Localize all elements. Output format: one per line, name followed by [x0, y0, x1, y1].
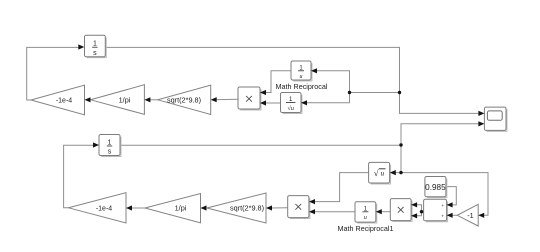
node B junction dot	[348, 91, 351, 94]
wire gain sqrt bottom to 1/pi bottom	[206, 207, 207, 209]
wire node B to Math Reciprocal 1/u input	[312, 71, 350, 93]
arrowhead into product P1 in2	[260, 100, 266, 105]
svg-text:s: s	[93, 50, 97, 57]
svg-text:+: +	[441, 203, 444, 208]
arrowhead into product P2 in2	[309, 209, 315, 214]
wire 1/u bottom output to product P2 in2	[314, 211, 355, 213]
integrator U1 (1/s top)	[85, 35, 107, 57]
svg-text:1: 1	[93, 41, 97, 48]
wire 1/u output to product P1 in1	[261, 71, 291, 93]
arrowhead into integrator2	[93, 142, 99, 147]
svg-text:√u: √u	[287, 105, 294, 112]
svg-text:-1e-4: -1e-4	[56, 98, 72, 105]
svg-text:+: +	[441, 213, 444, 218]
arrowhead into gain -1e-4 top	[85, 97, 91, 102]
arrowhead into gain -1	[478, 213, 484, 218]
wire node C to node D / sqrt(u) input	[395, 145, 401, 173]
svg-text:u: u	[381, 169, 385, 177]
wire node C to scope in2	[401, 124, 479, 145]
arrowhead into sqrt(u)	[390, 170, 396, 175]
arrowhead into gain sqrt top	[211, 97, 217, 102]
wire product P3 output to 1/u bottom input	[381, 211, 390, 213]
svg-text:-1e-4: -1e-4	[96, 206, 112, 213]
wire product P2 output to gain sqrt bottom	[271, 207, 288, 209]
math reciprocal block 1/u (top)	[291, 61, 312, 81]
arrowhead into sum in2	[447, 213, 453, 218]
wire node B to 1/sqrt(u) input	[302, 93, 350, 103]
gain G2 (1/pi top)	[91, 85, 145, 115]
wire integrator2 output to node C	[120, 144, 401, 146]
wire 1/sqrt(u) output to product P1 in2	[261, 102, 281, 104]
arrowhead into 1/u bottom	[376, 209, 382, 214]
constant block 0.985	[425, 177, 447, 198]
svg-text:1: 1	[108, 139, 112, 146]
svg-text:sqrt(2*9.8): sqrt(2*9.8)	[167, 95, 201, 104]
gain G1 (-1e-4 top)	[31, 85, 85, 115]
wire gain chain sqrt to 1/pi	[146, 99, 158, 101]
label Math Reciprocal1	[338, 224, 394, 233]
wire product P1 output to gain sqrt(2*9.8)	[212, 98, 238, 100]
wire 1/pi bottom to -1e-4 bottom	[131, 207, 145, 209]
svg-text:Math Reciprocal: Math Reciprocal	[276, 82, 328, 91]
node C junction dot	[399, 143, 402, 146]
math block 1/sqrt(u)	[281, 93, 302, 114]
wire node D to gain -1 input	[401, 173, 488, 216]
arrowhead into sum in1	[447, 202, 453, 207]
wire sqrt(u) output to product P2 in1	[314, 173, 369, 202]
svg-text:0.985: 0.985	[425, 183, 446, 192]
scope block	[484, 107, 507, 131]
svg-text:Math Reciprocal1: Math Reciprocal1	[338, 224, 394, 233]
svg-text:1/pi: 1/pi	[175, 204, 187, 213]
arrowhead into scope in1	[478, 111, 484, 116]
arrowhead into gain -1e-4 bottom	[126, 205, 132, 210]
arrowhead into product P3 in2	[411, 213, 417, 218]
svg-text:s: s	[108, 149, 112, 156]
svg-text:√: √	[374, 168, 379, 178]
svg-text:u: u	[300, 74, 303, 80]
wire constant 0.985 to sum in1	[446, 187, 456, 205]
arrowhead into gain 1/pi top	[144, 97, 150, 102]
sqrt(u) block	[369, 162, 391, 184]
math reciprocal block 1/u (bottom)	[355, 202, 377, 223]
integrator U2 (1/s bottom)	[99, 135, 121, 157]
arrowhead into product P2 in1	[309, 199, 315, 204]
arrowhead into gain sqrt bottom	[266, 205, 272, 210]
product P1 (top)	[238, 87, 261, 110]
arrowhead into product P3 in1	[411, 202, 417, 207]
gain G4 (-1e-4 bottom)	[69, 193, 127, 223]
node A junction dot	[398, 91, 401, 94]
arrowhead into product P1 in1	[260, 90, 266, 95]
arrowhead into scope in2	[478, 121, 484, 126]
arrowhead into 1/u top	[311, 68, 317, 73]
gain G7 (-1)	[457, 204, 478, 226]
node E junction dot	[420, 210, 423, 213]
arrowhead into integrator1	[78, 44, 84, 49]
wire gain -1 output to sum in2	[452, 214, 458, 216]
wire node A to node B	[350, 92, 400, 94]
svg-text:u: u	[364, 215, 367, 221]
svg-text:sqrt(2*9.8): sqrt(2*9.8)	[230, 204, 264, 213]
arrowhead into 1/sqrt(u)	[301, 100, 307, 105]
product P2 (bottom left)	[288, 196, 310, 219]
arrowhead into gain 1/pi bottom	[201, 205, 207, 210]
wire integrator1 output to node A / scope in1	[106, 47, 480, 113]
sum block S1	[424, 199, 448, 221]
wire sum output to node E and product P3 inputs	[416, 205, 424, 216]
wire feedback bottom -1e-4 to integrator2	[64, 145, 94, 208]
node D junction dot	[399, 171, 402, 174]
gain G3 (sqrt(2*9.8) top)	[158, 85, 211, 114]
product P3 (squaring)	[390, 199, 412, 222]
svg-text:1/pi: 1/pi	[119, 95, 131, 104]
label Math Reciprocal	[276, 82, 328, 91]
gain G6 (sqrt(2*9.8) bottom)	[207, 193, 266, 223]
wire feedback -1e-4 output to integrator1 input	[27, 47, 80, 100]
svg-text:-1: -1	[467, 211, 474, 220]
gain G5 (1/pi bottom)	[145, 194, 201, 223]
